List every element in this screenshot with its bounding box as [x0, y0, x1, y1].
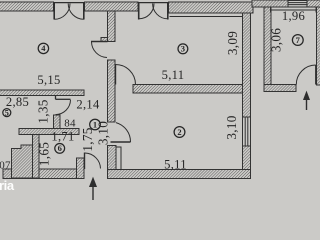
wall: room 4 bottom band: [0, 90, 84, 96]
room 7 door leaf: [315, 65, 317, 85]
door room3 to hall: swing arc: [116, 65, 136, 85]
wall: top exterior, right thick segment over room 3: [169, 2, 254, 13]
room 6 label: [55, 143, 65, 153]
wall: vertical stub between room 4 and room 3: [108, 11, 116, 42]
svg-text:3,10: 3,10: [224, 115, 239, 139]
wall: small pillar beside niche 84: [54, 115, 61, 129]
wall: right exterior wall: [243, 13, 251, 179]
room 3 label: [178, 44, 188, 54]
svg-text:4: 4: [41, 43, 46, 53]
room 4 label: [38, 43, 48, 53]
wall: hall top band over room 6: [19, 129, 79, 135]
double door 1 arcs: [54, 4, 70, 20]
room 2 label: [174, 127, 185, 138]
wall: stepped block lower-left: [12, 145, 33, 178]
door room5 swing arc: [56, 100, 71, 115]
wall: bottom exterior band, right of entry: [108, 170, 251, 179]
svg-text:ria: ria: [0, 178, 15, 193]
svg-text:84: 84: [64, 118, 76, 130]
svg-text:1,65: 1,65: [36, 142, 51, 166]
wall: bottom exterior band, left segment: [3, 169, 77, 179]
svg-text:3: 3: [181, 44, 185, 54]
room number labels: [3, 35, 303, 154]
room 5 label: [3, 107, 11, 117]
double door 2 arcs: [139, 4, 154, 19]
door room5 leaf: [56, 98, 71, 100]
dimension texts: [0, 9, 305, 171]
door A swing arc: [92, 42, 108, 58]
wall: divider band between room 3 and room 2: [133, 85, 243, 94]
svg-text:7: 7: [296, 35, 301, 45]
dimension line 1,96 with end ticks: [271, 9, 317, 11]
svg-text:5: 5: [5, 107, 9, 117]
wall: top exterior, middle segment: [85, 2, 139, 11]
wire: outer top line across door openings: [54, 2, 85, 4]
double door 2 leaves (top wall, room 3): [138, 3, 140, 20]
svg-text:07: 07: [0, 159, 11, 171]
wall: vertical wall left of room 6: [33, 135, 40, 179]
wall: pillar between entry and hall: [108, 146, 117, 170]
svg-text:5,15: 5,15: [37, 73, 60, 87]
window in right wall of room 2: [243, 117, 251, 146]
svg-text:1,75: 1,75: [80, 127, 95, 151]
room 7 door swing arc: [296, 65, 316, 85]
door B leaf (hall to room 2): [111, 141, 131, 143]
svg-text:2,14: 2,14: [76, 98, 100, 112]
entry door swing arc: [85, 153, 101, 169]
svg-text:1,71: 1,71: [51, 130, 74, 144]
double door 1 leaves (top wall, room 4): [53, 3, 55, 20]
svg-text:5,11: 5,11: [164, 157, 187, 171]
wall: stub foot widening at door A: [101, 38, 108, 42]
svg-text:1: 1: [93, 119, 97, 129]
svg-text:3,10: 3,10: [95, 121, 110, 145]
partition room5 / hall: [55, 96, 57, 100]
svg-text:3,06: 3,06: [268, 28, 283, 52]
svg-text:1,35: 1,35: [35, 99, 50, 123]
wall: room 7 right edge sliver: [317, 7, 320, 85]
entry arrow bottom: [90, 178, 97, 200]
wall: top exterior, left segment: [0, 2, 54, 11]
svg-text:6: 6: [58, 143, 62, 153]
entry arrow room 7: [304, 92, 310, 110]
window in top wall of room 7: [288, 1, 307, 8]
door room3 to hall: leaf: [115, 65, 117, 85]
wall: room 7 left wall: [264, 7, 271, 92]
room 7 label: [292, 35, 303, 46]
entry door leaf: [84, 153, 86, 170]
inner face line of thick top wall over room 3: [170, 16, 243, 18]
wall: vertical between room 4 and hall, below door A: [108, 60, 116, 122]
door A leaf (room 4 / room 3): [91, 41, 108, 43]
svg-text:3,09: 3,09: [225, 31, 240, 55]
svg-text:5,11: 5,11: [162, 68, 185, 82]
wall: entry step riser: [77, 158, 85, 179]
room 1 label: [90, 119, 101, 130]
wall: room 7 bottom band: [264, 85, 296, 92]
svg-text:1,96: 1,96: [282, 9, 305, 23]
door B swing arc: [116, 123, 131, 142]
svg-text:2: 2: [177, 127, 181, 137]
wall: top exterior over room 7 wing: [252, 0, 320, 7]
svg-text:2,85: 2,85: [6, 95, 29, 109]
pillar outline right of entry pillar: [116, 147, 121, 170]
